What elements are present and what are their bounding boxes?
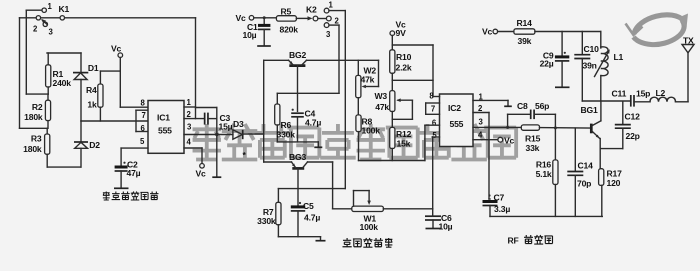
ground (C1)	[257, 45, 271, 47]
svg-text:47k: 47k	[361, 75, 375, 85]
svg-text:22µ: 22µ	[540, 59, 554, 69]
wire IC2 pin 5 to C6	[432, 136, 439, 138]
Vc terminal (IC1 pin4)	[196, 164, 207, 179]
svg-text:D2: D2	[89, 140, 100, 150]
wire RF bottom rail	[490, 215, 602, 217]
svg-text:820k: 820k	[280, 25, 299, 35]
svg-text:8: 8	[141, 99, 146, 108]
svg-text:L1: L1	[614, 52, 624, 62]
svg-text:100k: 100k	[360, 222, 379, 232]
wire R3 bottom to D2	[47, 166, 81, 168]
svg-text:39k: 39k	[518, 36, 532, 46]
svg-text:R12: R12	[396, 129, 412, 139]
wire top rail	[20, 17, 196, 19]
wire left vertical	[19, 18, 21, 129]
svg-text:555: 555	[158, 126, 172, 136]
svg-text:2: 2	[335, 17, 340, 26]
op-amp U2 : IC2 555 timer box	[429, 92, 483, 147]
svg-text:3: 3	[49, 28, 54, 37]
svg-text:Vc: Vc	[504, 136, 515, 146]
ground (C2)	[114, 187, 129, 189]
svg-text:L2: L2	[656, 88, 666, 98]
wire IC1 pin 1	[184, 106, 196, 108]
label audio generator	[343, 238, 393, 247]
svg-text:R4: R4	[86, 85, 97, 95]
svg-text:Vc: Vc	[236, 13, 247, 23]
svg-text:IC1: IC1	[157, 113, 170, 123]
wire IC1 pin 2	[184, 118, 205, 120]
wire Vc to R5	[254, 17, 277, 19]
svg-text:47µ: 47µ	[127, 168, 141, 178]
watermark logo (circular arrows)	[634, 15, 685, 45]
inductor L1 (adjustable)	[595, 32, 624, 102]
wire IC2 pin 2	[473, 112, 489, 114]
wire IC1 pin 3	[184, 134, 233, 136]
wire IC2 pin 3 / R15 line	[473, 126, 521, 128]
svg-text:5.1k: 5.1k	[536, 169, 552, 179]
svg-text:Vc: Vc	[196, 169, 207, 179]
wire R7 top rail	[278, 188, 345, 190]
transistor Q-BG2	[289, 50, 307, 111]
wire 9V to IC2 pin 8	[392, 44, 433, 46]
wire IC1 pin 5	[121, 147, 148, 149]
capacitor C8	[508, 101, 556, 127]
svg-text:K1: K1	[59, 4, 70, 14]
potentiometer W3	[375, 91, 413, 128]
diode D1	[73, 53, 99, 121]
svg-text:3: 3	[326, 30, 331, 39]
svg-text:TX: TX	[683, 36, 694, 46]
capacitor C12	[600, 102, 640, 149]
ground (R6/C4)	[317, 142, 319, 147]
svg-text:C7: C7	[494, 193, 505, 203]
wire W1 to C6	[383, 208, 432, 210]
svg-text:3: 3	[187, 123, 192, 132]
capacitor C9	[540, 32, 570, 87]
resistor R3	[23, 128, 50, 167]
wire R1 top to D1	[47, 52, 81, 54]
Vc terminal (left, top)	[111, 44, 123, 108]
svg-text:R3: R3	[31, 134, 42, 144]
diode D2	[74, 121, 100, 167]
capacitor C5	[291, 201, 321, 237]
svg-text:IC2: IC2	[448, 103, 461, 113]
resistor R6	[275, 93, 296, 142]
wire BG3 collector to W1	[308, 161, 333, 163]
svg-text:4.7µ: 4.7µ	[304, 213, 320, 223]
potentiometer W1	[333, 191, 384, 232]
svg-text:Vc: Vc	[482, 27, 493, 37]
wire IC2 pin 4	[473, 139, 498, 141]
capacitor C1	[243, 16, 271, 45]
svg-text:C8: C8	[517, 101, 528, 111]
svg-text:100k: 100k	[362, 126, 381, 136]
transistor Q-BG1	[581, 101, 601, 139]
svg-text:BG3: BG3	[289, 152, 306, 162]
switch K1	[26, 2, 69, 37]
svg-text:56p: 56p	[535, 101, 549, 111]
svg-text:47k: 47k	[375, 102, 389, 112]
watermark company name	[193, 124, 517, 160]
resistor R16	[536, 160, 558, 217]
svg-text:D3: D3	[233, 119, 244, 129]
wire to R3 top	[20, 127, 48, 129]
ground (C6)	[426, 228, 441, 230]
svg-text:22p: 22p	[626, 131, 640, 141]
wire left audio vertical (D3 node)	[263, 60, 265, 162]
potentiometer W2	[356, 60, 379, 97]
wire IC2 pin 7 bracket	[426, 103, 440, 114]
svg-text:R6: R6	[281, 120, 292, 130]
svg-text:3: 3	[479, 118, 484, 127]
resistor R15	[521, 125, 591, 153]
wire R10/W3 junction to pin8 line	[392, 79, 433, 81]
wire C8 right down to R15/R16 node	[554, 114, 556, 160]
ground (C9)	[555, 86, 570, 88]
inductor L2	[650, 88, 676, 102]
wire RF collector rail	[582, 100, 630, 102]
svg-text:R5: R5	[281, 7, 292, 17]
svg-text:39n: 39n	[583, 61, 597, 71]
wire C11 to L2	[634, 101, 650, 103]
svg-text:15k: 15k	[397, 139, 411, 149]
svg-text:3.3µ: 3.3µ	[494, 204, 510, 214]
resistor R2	[24, 94, 50, 128]
svg-text:C12: C12	[625, 112, 641, 122]
switch K2	[296, 1, 339, 40]
capacitor C11	[612, 88, 651, 106]
label duty-cycle generator	[103, 192, 159, 201]
wire L2 to antenna	[676, 101, 689, 103]
svg-text:D1: D1	[88, 63, 99, 73]
svg-text:C10: C10	[584, 44, 600, 54]
wire IC2 pin 1 to ground	[473, 99, 508, 101]
Vc 9V terminal	[390, 20, 406, 50]
wire pin 8	[120, 106, 148, 108]
svg-text:6: 6	[432, 119, 437, 128]
wire pins 7-6 bracket	[136, 110, 148, 131]
svg-text:R2: R2	[32, 102, 43, 112]
wire C3/pin1 down to ground	[216, 108, 218, 177]
wire from K1 contact 1	[25, 10, 27, 94]
resistor R14	[514, 18, 535, 46]
svg-text:2: 2	[187, 110, 192, 119]
svg-text:10µ: 10µ	[439, 222, 453, 232]
svg-text:2.2k: 2.2k	[396, 63, 412, 73]
wire IC2 pin 6	[425, 124, 440, 126]
Vc terminal (IC2 pin4)	[498, 136, 515, 146]
svg-text:4.7µ: 4.7µ	[305, 118, 321, 128]
label RF oscillator	[508, 235, 553, 246]
transistor Q-BG3	[289, 152, 308, 205]
wire BG2 emitter/base rail	[264, 59, 289, 61]
svg-text:70p: 70p	[577, 179, 591, 189]
capacitor C4	[291, 109, 321, 142]
wire K2 contact 1 down	[329, 10, 345, 12]
resistor R8	[356, 98, 380, 161]
svg-text:10µ: 10µ	[243, 30, 257, 40]
svg-text:BG1: BG1	[581, 105, 598, 115]
wire BG2 base junction rail	[277, 92, 339, 94]
resistor R10	[390, 50, 412, 91]
svg-text:R14: R14	[517, 18, 533, 28]
resistor R7	[257, 189, 281, 237]
wire Vc to R14	[498, 31, 514, 33]
svg-text:C11: C11	[612, 88, 627, 98]
wire IC1 pin 4	[184, 147, 202, 149]
resistor R4	[86, 71, 120, 121]
resistor R17	[599, 169, 622, 217]
wire K2 contact 3 down	[329, 24, 339, 26]
capacitor C7	[483, 193, 511, 217]
wire diode junction to IC1 pins 7/6	[81, 120, 148, 122]
svg-text:Vc: Vc	[111, 44, 122, 54]
wire BG1 emitter down	[599, 139, 601, 169]
svg-text:180k: 180k	[24, 112, 43, 122]
svg-text:C5: C5	[303, 201, 314, 211]
wire R6/C4 bottom to ground	[277, 141, 318, 143]
op-amp U1 : IC1 555 timer box	[140, 98, 192, 153]
svg-text:R15: R15	[525, 134, 541, 144]
svg-text:15µ: 15µ	[219, 122, 233, 132]
svg-text:K2: K2	[306, 5, 317, 15]
svg-text:R10: R10	[396, 52, 412, 62]
ground (IC1 right)	[212, 176, 221, 178]
svg-text:330k: 330k	[257, 216, 276, 226]
svg-text:7: 7	[431, 105, 435, 114]
svg-text:R16: R16	[536, 160, 552, 170]
svg-text:2: 2	[478, 104, 483, 113]
svg-text:330k: 330k	[277, 130, 296, 140]
Vc terminal (middle)	[236, 13, 254, 23]
Vc terminal (RF top)	[482, 27, 498, 37]
wire audio bottom rail	[278, 236, 320, 238]
wire BG2 collector to W2	[307, 59, 379, 61]
wire D3 node down to BG3	[264, 161, 292, 163]
capacitor C6	[425, 213, 453, 232]
svg-text:555: 555	[450, 119, 464, 129]
resistor R1	[46, 53, 72, 94]
svg-text:1: 1	[187, 98, 192, 107]
svg-text:1: 1	[48, 2, 53, 11]
svg-text:1: 1	[329, 1, 334, 10]
svg-text:1k: 1k	[87, 100, 97, 110]
svg-text:7: 7	[142, 111, 146, 120]
capacitor C14	[567, 128, 593, 216]
svg-text:15p: 15p	[636, 89, 650, 99]
ground (audio)	[320, 237, 322, 241]
svg-text:4: 4	[187, 138, 192, 147]
svg-text:33k: 33k	[526, 143, 540, 153]
wire R8/R12 bottom rail to IC2 pin6	[359, 160, 425, 162]
wire IC2 pin 8	[433, 96, 440, 98]
svg-text:BG2: BG2	[289, 50, 306, 60]
svg-text:2: 2	[33, 25, 38, 34]
diode D3	[233, 119, 244, 139]
resistor R12	[390, 127, 412, 160]
svg-text:120: 120	[607, 178, 621, 188]
svg-text:5: 5	[140, 137, 145, 146]
svg-text:240k: 240k	[53, 78, 72, 88]
svg-text:180k: 180k	[23, 144, 42, 154]
capacitor C3	[205, 113, 233, 132]
capacitor C10	[574, 32, 599, 102]
resistor R5	[276, 7, 298, 35]
capacitor C2	[115, 160, 141, 188]
svg-text:9V: 9V	[396, 28, 407, 38]
svg-text:R17: R17	[607, 169, 623, 179]
wire D3 to node F	[243, 133, 264, 135]
wire R14 to L1	[535, 31, 601, 33]
svg-text:RF: RF	[508, 236, 519, 246]
svg-text:C14: C14	[578, 161, 594, 171]
antenna TX	[682, 36, 694, 53]
svg-text:W3: W3	[375, 91, 388, 101]
